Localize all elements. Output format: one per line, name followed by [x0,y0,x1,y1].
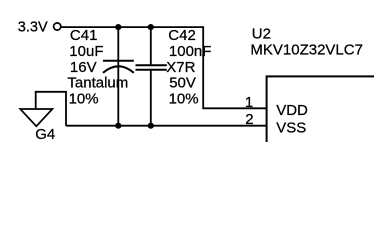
net label 3.3V [18,19,48,35]
svg-text:10%: 10% [169,91,199,108]
svg-text:50V: 50V [169,75,196,92]
svg-text:2: 2 [245,111,253,128]
pin 1 name VDD [276,102,308,119]
pin 2 number [245,111,253,128]
junction dot bottom C41 [115,123,121,129]
svg-text:VSS: VSS [276,120,306,137]
capacitor C41 top plate [103,60,134,62]
wire right drop to pin 1 [203,26,266,108]
capacitor C41 curved plate [103,66,134,73]
svg-text:C42: C42 [168,27,196,44]
svg-text:1: 1 [245,94,253,111]
svg-text:G4: G4 [35,126,55,142]
capacitor C42 lead upper [150,27,152,65]
IC U2 box [267,76,374,166]
svg-text:U2: U2 [252,25,271,42]
svg-text:10uF: 10uF [69,43,103,60]
ground symbol triangle [20,109,52,126]
svg-text:10%: 10% [69,91,99,108]
IC U2 reference [252,25,271,42]
capacitor C42 bottom plate [136,69,167,71]
svg-text:100nF: 100nF [169,43,212,60]
capacitor C42 top plate [136,64,167,66]
pin 2 name VSS [276,120,306,137]
pin 1 number [245,94,253,111]
capacitor C42 lead lower [150,70,152,126]
power node circle [54,23,61,30]
IC U2 value MKV10Z32VLC7 [250,41,363,58]
svg-text:X7R: X7R [166,59,195,76]
svg-text:VDD: VDD [276,102,308,119]
capacitor C42 labels [166,27,211,107]
wire bottom rail to pin 2 [66,125,267,127]
ground label G4 [35,126,55,143]
svg-text:3.3V: 3.3V [18,19,48,35]
svg-text:16V: 16V [70,59,97,76]
wire top rail [61,26,204,28]
svg-text:MKV10Z32VLC7: MKV10Z32VLC7 [250,41,363,58]
svg-text:Tantalum: Tantalum [67,75,128,92]
svg-text:C41: C41 [70,27,98,44]
capacitor C41 labels [67,27,128,107]
wire ground jog [36,92,66,126]
capacitor C41 lead [117,27,119,126]
junction dot bottom C42 [148,123,154,129]
junction dot top C42 [148,24,154,30]
junction dot top C41 [115,24,121,30]
